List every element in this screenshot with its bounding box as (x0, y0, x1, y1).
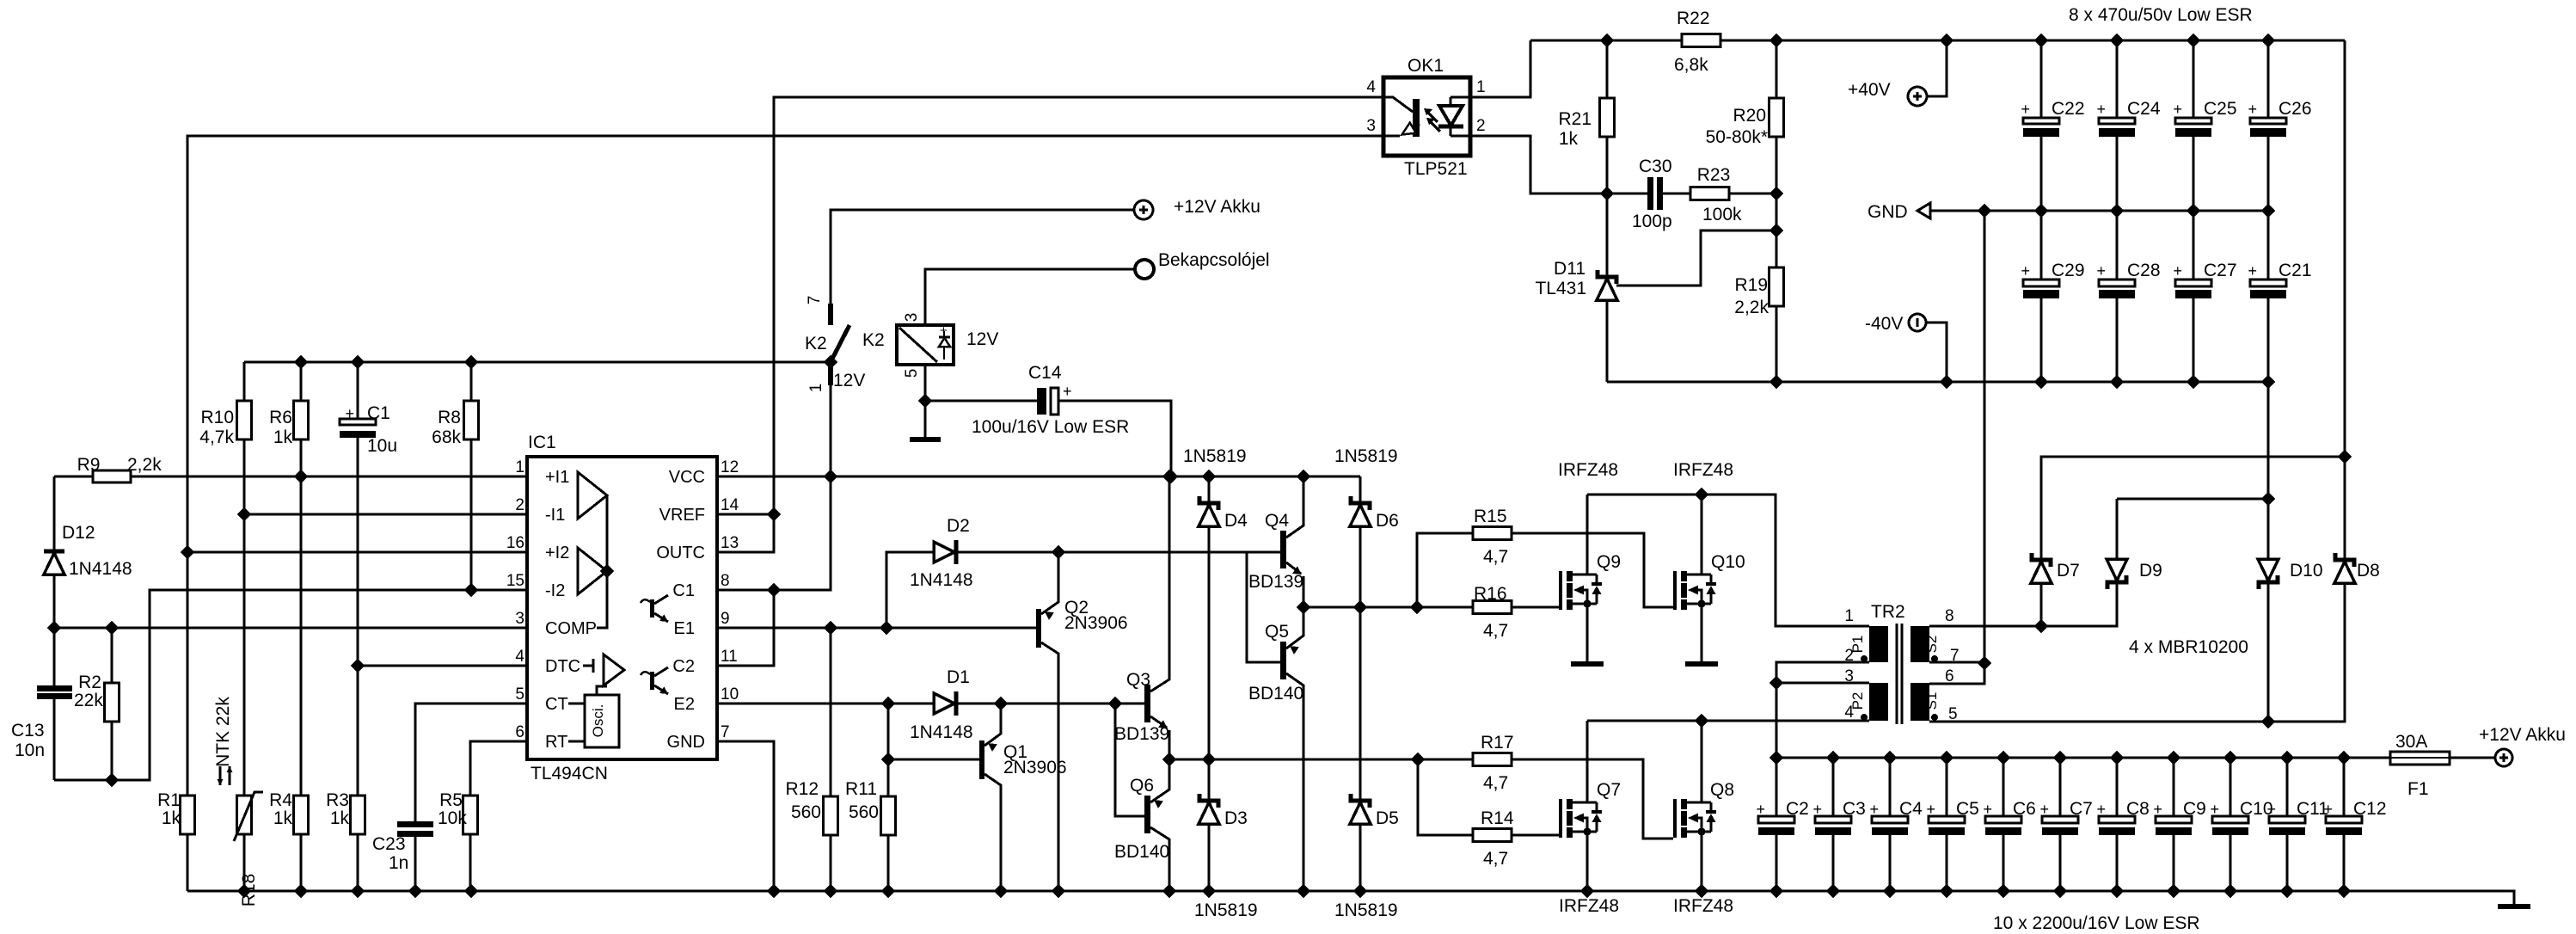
svg-text:COMP: COMP (545, 619, 597, 638)
svg-text:C25: C25 (2204, 99, 2237, 119)
svg-text:+: + (940, 323, 948, 338)
junction C4 top (1884, 752, 1896, 764)
junction C12 bottom (2338, 885, 2350, 897)
wire +40V to top bus (1927, 40, 1947, 96)
svg-text:R14: R14 (1481, 808, 1514, 828)
wire -40V bus (1607, 381, 2268, 384)
diode D4 1N5819 (1208, 476, 1211, 759)
svg-text:C22: C22 (2052, 99, 2085, 119)
resistor R22 (1682, 34, 1720, 47)
svg-text:R4: R4 (269, 790, 292, 810)
svg-text:6: 6 (515, 723, 524, 741)
resistor R17 (1512, 759, 1673, 839)
wire C2 pin11 up to C1 row (717, 590, 774, 666)
capacitor C26 (2267, 40, 2270, 211)
svg-text:C29: C29 (2052, 261, 2085, 280)
resistor R4 (294, 796, 309, 834)
svg-text:R19: R19 (1734, 275, 1768, 295)
svg-text:+: + (2248, 101, 2257, 118)
wire C13/R2 bottom to pin15 (54, 590, 527, 780)
node pin16 junction on left column (181, 546, 193, 558)
diode D6 1N5819 (1359, 476, 1362, 607)
svg-text:R15: R15 (1474, 507, 1507, 526)
wire TL431 ref to R20/R19 (1616, 230, 1776, 286)
svg-text:8: 8 (1945, 607, 1954, 625)
svg-text:TR2: TR2 (1871, 602, 1905, 622)
svg-text:1N4148: 1N4148 (69, 559, 132, 579)
svg-text:C4: C4 (1899, 799, 1923, 819)
svg-text:GND: GND (1868, 202, 1908, 222)
svg-text:1: 1 (515, 458, 524, 476)
svg-text:D8: D8 (2357, 561, 2380, 581)
diode D2 1N4148 (886, 552, 1247, 628)
wire pin1 row junction R6 (295, 470, 307, 482)
diode D11 TL431 (1606, 194, 1609, 382)
junction Q6 base branch (1109, 697, 1121, 710)
junction C11 top (2281, 752, 2293, 764)
svg-text:D10: D10 (2290, 561, 2323, 581)
IC1 DTC input symbol (583, 659, 593, 673)
junction COMP/C13 (48, 622, 60, 634)
svg-text:GND: GND (667, 733, 705, 752)
svg-text:2,2k: 2,2k (127, 455, 162, 475)
svg-text:D4: D4 (1224, 511, 1248, 531)
junction C29 bottom (2035, 376, 2047, 388)
optocoupler OK1 TLP521 box (1383, 77, 1470, 156)
ground under relay (910, 437, 941, 442)
svg-text:BD139: BD139 (1248, 572, 1303, 592)
junction D7 anode (2035, 620, 2047, 632)
wire +12V top rail R10/R6/C1/R8 (244, 361, 831, 364)
svg-text:4,7: 4,7 (1483, 547, 1508, 567)
svg-text:K2: K2 (862, 330, 885, 350)
svg-text:1k: 1k (273, 427, 293, 447)
svg-text:BD140: BD140 (1248, 684, 1303, 704)
wire +I2 pin16 row (187, 551, 527, 554)
capacitor C12 (2343, 758, 2346, 891)
wire Q4/Q5 emitter node row (1303, 606, 1473, 609)
mosfet Q10 IRFZ48 (1673, 571, 1716, 610)
svg-text:100k: 100k (1702, 205, 1742, 224)
junction Q4 collector on rail (1297, 470, 1309, 482)
transformer TR2 secondary S2 (1911, 626, 1929, 662)
wire VCC pin12 to +12V rail (717, 476, 1360, 478)
capacitor C14 100u/16V (925, 401, 1171, 476)
svg-text:1N5819: 1N5819 (1334, 446, 1398, 466)
svg-text:R17: R17 (1481, 733, 1514, 753)
svg-text:TLP521: TLP521 (1404, 159, 1468, 179)
svg-text:D12: D12 (62, 523, 95, 543)
diode D5 1N5819 (1359, 607, 1362, 891)
capacitor C5 (1946, 758, 1948, 891)
junction R19 bottom (1770, 376, 1782, 388)
ground symbol bottom right (2498, 904, 2530, 909)
resistor R23 (1729, 193, 1776, 195)
svg-text:IRFZ48: IRFZ48 (1558, 460, 1618, 480)
svg-text:Q4: Q4 (1265, 511, 1289, 531)
junction -40V on bus (1941, 376, 1953, 388)
wire from OK1 pin3 to left column (187, 136, 1383, 796)
svg-text:+: + (2039, 801, 2049, 818)
svg-text:1k: 1k (273, 808, 293, 828)
svg-text:2N3906: 2N3906 (1003, 758, 1067, 777)
svg-text:R23: R23 (1697, 165, 1731, 185)
svg-text:4,7: 4,7 (1483, 621, 1508, 641)
junction D1/Q1 emitter (995, 697, 1007, 710)
NTC arrows (217, 766, 223, 785)
relay K2 coil (897, 325, 954, 365)
IC1 DTC triangle (604, 654, 624, 685)
wire TR2 pin8 to D7/D9 (1929, 625, 2117, 628)
svg-text:DTC: DTC (545, 657, 580, 676)
junction C5 top (1941, 752, 1953, 764)
svg-text:C23: C23 (372, 834, 406, 854)
svg-text:10k: 10k (438, 808, 467, 828)
svg-text:Q10: Q10 (1711, 552, 1745, 572)
IC1 left pin names (545, 468, 597, 752)
svg-text:+: + (2153, 801, 2162, 818)
junction R8 bottom on pin15 row (465, 584, 477, 596)
capacitor C30 100p (1607, 193, 1690, 195)
resistor R14 (1418, 759, 1559, 835)
svg-text:+12V Akku: +12V Akku (2479, 725, 2566, 745)
junction D10 top branch (2262, 493, 2274, 505)
svg-text:D3: D3 (1224, 808, 1248, 828)
TR2 phase dots (1861, 655, 1938, 721)
capacitor C4 (1889, 758, 1892, 891)
wire switch to VCC rail (830, 385, 832, 590)
transistor Q2 2N3906 (1036, 609, 1041, 648)
junction COMP/R2 (106, 622, 118, 634)
svg-text:S1: S1 (1923, 692, 1940, 710)
svg-text:4: 4 (1366, 78, 1376, 96)
diode D3 1N5819 (1208, 759, 1211, 891)
wire DTC row pin4 (358, 665, 527, 667)
svg-text:7: 7 (806, 296, 824, 305)
svg-text:CT: CT (545, 695, 568, 714)
IC1 oscillator box (585, 695, 619, 747)
junction R15 branch (1411, 601, 1423, 613)
svg-text:2: 2 (1476, 117, 1486, 135)
svg-text:11: 11 (721, 648, 738, 666)
wire +40V right edge down to D8 (2344, 40, 2346, 560)
svg-text:IRFZ48: IRFZ48 (1673, 460, 1733, 480)
junction C9 bottom (2168, 885, 2180, 897)
switch K2 labels (805, 330, 885, 390)
wire from VREF/OUTC column to OK1 pin4 (774, 97, 1383, 514)
wire CT row pin5 to C23 (415, 704, 527, 821)
wire D9/D10 anode link (2117, 498, 2268, 501)
svg-text:+: + (2096, 101, 2106, 118)
terminal +40V (1908, 87, 1927, 106)
svg-text:+: + (345, 405, 354, 422)
capacitor C28 (2116, 211, 2119, 382)
IC1 internal transistor T2 (641, 667, 668, 694)
diode D9 MBR10200 (2041, 499, 2117, 626)
wire -40V to bus (1926, 323, 1947, 382)
resistor R1 (181, 796, 195, 834)
svg-text:+: + (2323, 801, 2333, 818)
svg-text:+I2: +I2 (545, 544, 569, 562)
svg-text:C2: C2 (672, 657, 695, 676)
svg-text:C9: C9 (2183, 799, 2206, 819)
resistor R2 (111, 628, 113, 780)
svg-text:1N4148: 1N4148 (910, 570, 973, 590)
svg-text:15: 15 (506, 572, 524, 590)
svg-text:C27: C27 (2204, 261, 2237, 280)
mosfet Q8 IRFZ48 (1673, 799, 1716, 838)
svg-text:C30: C30 (1639, 157, 1672, 176)
OK1 light arrows (1424, 108, 1440, 132)
capacitor C6 (2003, 758, 2005, 891)
junction C22 top (2035, 34, 2047, 46)
junction R2 bottom (106, 774, 118, 786)
IC1 right pin numbers (721, 458, 739, 741)
capacitor C21 (2267, 211, 2270, 382)
svg-text:+: + (1869, 801, 1879, 818)
junction switch pivot / R-rail (825, 356, 837, 368)
wire Q7/Q8 drains to TR2 pin4 (1587, 720, 1869, 722)
junction R21/C30 row (1601, 187, 1613, 200)
svg-text:C5: C5 (1956, 799, 1979, 819)
svg-text:Bekapcsolójel: Bekapcsolójel (1158, 250, 1270, 270)
diode D1 1N4148 (933, 703, 935, 705)
junction dots bottom bus left (238, 885, 1708, 897)
svg-text:P1: P1 (1849, 636, 1866, 654)
svg-text:22k: 22k (74, 691, 103, 710)
capacitor C7 (2059, 758, 2062, 891)
terminal Bekapcsolojel (1135, 260, 1154, 279)
switch K2 contact and blade (831, 304, 849, 385)
svg-text:10: 10 (721, 685, 739, 704)
terminal +12V Akku left (1134, 200, 1153, 219)
transformer TR2 primary P1 (1869, 626, 1888, 662)
wire Bekapcsolojel to relay coil (925, 269, 1134, 325)
junction C25 top (2187, 34, 2199, 46)
resistor R9 (54, 476, 527, 478)
svg-text:R22: R22 (1677, 9, 1710, 28)
junction relay/C14 (919, 395, 931, 407)
svg-text:30A: 30A (2395, 732, 2427, 752)
svg-text:1N5819: 1N5819 (1194, 900, 1258, 920)
junction C6 bottom (1997, 885, 2009, 897)
wire Q1 base to R11 (888, 759, 979, 761)
capacitor C1 (357, 362, 359, 796)
svg-text:-I1: -I1 (545, 506, 565, 525)
svg-text:R20: R20 (1733, 106, 1766, 126)
wire E1 pin9 row (717, 627, 1038, 630)
junction Q3/Q6 emitters (1163, 753, 1175, 765)
wire E2 pin10 / D1 row (717, 703, 1147, 705)
svg-text:F1: F1 (2407, 779, 2429, 799)
bottom ground bus (187, 891, 2514, 905)
IC1 error amp 2 triangle (578, 548, 607, 594)
resistor R8 (470, 362, 473, 590)
junction C21 bottom (2262, 376, 2274, 388)
svg-text:P2: P2 (1849, 692, 1866, 710)
IC1 internal transistor T1 (641, 595, 668, 622)
svg-text:4: 4 (515, 648, 524, 666)
resistor R20 (1776, 40, 1778, 382)
junction Q4/Q5 emitters (1297, 601, 1309, 613)
wire TR2 pin7 to GND column (1929, 661, 1984, 664)
svg-text:1k: 1k (162, 808, 181, 828)
svg-text:+: + (2096, 801, 2106, 818)
fuse F1 30A (2390, 752, 2450, 765)
svg-text:NTK 22k: NTK 22k (213, 697, 233, 767)
svg-text:5: 5 (903, 369, 921, 378)
svg-text:9: 9 (721, 610, 730, 628)
resistor R15 (1417, 533, 1673, 607)
transformer TR2 secondary S1 (1911, 683, 1929, 721)
wire RT row pin6 to R5 (470, 741, 527, 796)
svg-text:3: 3 (903, 313, 921, 323)
transistor Q6 BD140 (1144, 796, 1150, 833)
capacitor C11 (2286, 758, 2289, 891)
terminal GND with arrow (1917, 203, 1930, 218)
transformer TR2 primary P2 (1869, 683, 1888, 721)
svg-text:+: + (2021, 101, 2030, 118)
junction R17/R14 branch (1412, 753, 1424, 765)
IC1 left pin numbers (506, 458, 525, 741)
resistor R11 (887, 704, 890, 891)
svg-text:3: 3 (1366, 117, 1376, 135)
svg-text:C28: C28 (2127, 261, 2161, 280)
junction C26 bottom (2262, 205, 2274, 217)
junction pin7 (1978, 657, 1990, 669)
wire 12V input bus (1776, 757, 2494, 759)
svg-text:12V: 12V (833, 371, 865, 390)
svg-text:D9: D9 (2139, 561, 2162, 581)
junction C25 bottom (2187, 205, 2199, 217)
svg-text:12: 12 (721, 458, 739, 476)
svg-text:560: 560 (791, 802, 821, 822)
junction D2/Q2 emitter (1052, 546, 1064, 558)
OK1 phototransistor (1383, 97, 1420, 137)
wire TR2 pin6 loop (1929, 211, 1984, 684)
transistor Q3 BD139 (1144, 685, 1150, 722)
junction R10/NTC on pin2 row (238, 508, 250, 520)
junction C3 top (1827, 752, 1839, 764)
thermistor R18 NTK 22k (237, 796, 252, 834)
svg-text:+12V Akku: +12V Akku (1174, 197, 1260, 217)
svg-text:TL431: TL431 (1535, 279, 1586, 298)
IC1 right pin names (656, 468, 705, 752)
svg-text:R2: R2 (78, 673, 101, 692)
junction C14 on rail (1165, 470, 1177, 482)
junction TL431 ref (1770, 224, 1782, 237)
wire relay pin5 to ground (924, 365, 927, 438)
svg-text:+: + (1983, 801, 1992, 818)
svg-text:4,7: 4,7 (1483, 773, 1508, 793)
wire OUTC pin13 (717, 514, 774, 552)
svg-text:C3: C3 (1843, 799, 1866, 819)
junction D7 wire on +40V column (2339, 451, 2351, 463)
IC1 error amp 1 triangle (578, 472, 607, 519)
svg-text:7: 7 (721, 723, 730, 741)
svg-text:2,2k: 2,2k (1734, 298, 1769, 317)
junction R23/R20 column (1770, 187, 1782, 200)
capacitor C29 (2040, 211, 2043, 382)
junction Q10 drain (1696, 489, 1708, 501)
junction VREF/OUTC (768, 508, 780, 520)
resistor R19 (1769, 267, 1784, 306)
transistor Q4 BD139 (1280, 531, 1286, 568)
capacitor C22 (2040, 40, 2043, 211)
svg-text:2: 2 (515, 496, 524, 514)
svg-text:+: + (1812, 801, 1822, 818)
svg-text:R5: R5 (439, 790, 463, 810)
svg-text:8: 8 (721, 572, 730, 590)
svg-text:R10: R10 (200, 408, 234, 427)
wire pin2 row -I1 (244, 513, 527, 516)
svg-text:Q8: Q8 (1710, 780, 1734, 800)
svg-text:5: 5 (515, 685, 524, 704)
svg-text:C14: C14 (1028, 363, 1062, 383)
svg-text:C12: C12 (2353, 799, 2387, 819)
TR2 pin numbers (1844, 607, 1959, 723)
svg-text:560: 560 (849, 802, 879, 822)
capacitor C2 (1776, 758, 1778, 891)
junction C8 top (2111, 752, 2123, 764)
svg-text:TL494CN: TL494CN (531, 764, 608, 783)
diode D8 MBR10200 (2268, 582, 2345, 722)
capacitor C27 (2193, 211, 2195, 382)
junction C7 bottom (2054, 885, 2066, 897)
svg-text:14: 14 (721, 496, 739, 514)
svg-text:BD139: BD139 (1114, 724, 1169, 744)
svg-text:1: 1 (807, 384, 825, 393)
svg-text:IRFZ48: IRFZ48 (1673, 896, 1733, 916)
svg-text:4,7k: 4,7k (199, 427, 234, 447)
junction E1/R12 (825, 622, 837, 634)
svg-text:C1: C1 (367, 403, 390, 423)
svg-text:16: 16 (506, 534, 524, 552)
junction Q3 collector on rail (1163, 470, 1175, 482)
wire Q3/Q6 emitter node row (1169, 759, 1473, 761)
svg-text:1N5819: 1N5819 (1183, 446, 1247, 466)
svg-text:4 x MBR10200: 4 x MBR10200 (2129, 637, 2248, 657)
junction C26 top (2262, 34, 2274, 46)
diode D12 1N4148 (53, 476, 56, 628)
svg-text:VCC: VCC (669, 468, 705, 487)
svg-text:1N4148: 1N4148 (910, 722, 973, 742)
capacitor C3 (1832, 758, 1835, 891)
junction C1/C2 tie (768, 584, 780, 596)
svg-text:C1: C1 (672, 581, 695, 600)
wire GND pin7 down to bus (717, 741, 774, 891)
svg-text:-40V: -40V (1865, 314, 1903, 334)
svg-text:+: + (2266, 801, 2276, 818)
OK1 led (1438, 97, 1470, 136)
svg-text:Q7: Q7 (1597, 780, 1621, 800)
junction C24 bottom (2111, 205, 2123, 217)
svg-text:OUTC: OUTC (656, 544, 705, 562)
junction C28 bottom (2111, 376, 2123, 388)
IC1 CT RT stubs (568, 704, 585, 741)
svg-text:D6: D6 (1376, 511, 1399, 531)
svg-text:8 x 470u/50v Low ESR: 8 x 470u/50v Low ESR (2069, 5, 2253, 25)
svg-text:R21: R21 (1558, 109, 1592, 129)
svg-text:13: 13 (721, 534, 739, 552)
junction pin3 (1770, 677, 1782, 689)
junction C9 top (2168, 752, 2180, 764)
junction C4 bottom (1884, 885, 1896, 897)
junction center tap on 12V bus (1770, 752, 1782, 764)
capacitor C25 (2193, 40, 2195, 211)
wire +12V Akku to switch K2 (831, 210, 1134, 304)
svg-text:R3: R3 (326, 790, 349, 810)
